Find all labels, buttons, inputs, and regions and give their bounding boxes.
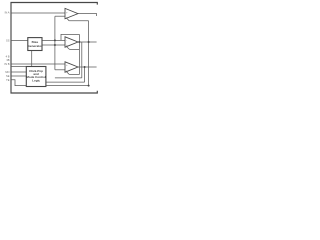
wire INB pin line A to op-amp U3 +input (11, 63, 65, 65)
wire U1 feedback horizontal (69, 20, 88, 22)
wire SS pin to bias generator (11, 39, 28, 41)
IC outline border (11, 3, 97, 94)
bias generator box B1 (28, 38, 42, 51)
wire vertical x79.4 (78, 34, 80, 74)
svg-text:TE: TE (6, 78, 10, 82)
junction node U2 out x79.4 (78, 41, 80, 43)
junction node U3 out x84.6 (84, 66, 86, 68)
wire U3 output to OUTC pin (78, 66, 97, 68)
svg-text:4 B: 4 B (6, 55, 10, 59)
op-amp U3 (65, 62, 78, 72)
wire bias W1 to U2 top input (42, 39, 65, 41)
wire vertical x81.8 (81, 42, 83, 78)
wire U3 -input from bus corner (55, 69, 65, 71)
wire U1 feedback vertical down right side (88, 21, 90, 86)
wire U2 feedback diagonal (67, 47, 70, 50)
svg-text:3B: 3B (6, 58, 9, 62)
wire vertical bus x55 (54, 16, 56, 70)
wire U1 feedback diagonal (66, 18, 69, 21)
svg-text:SS: SS (6, 39, 10, 43)
svg-text:IN A: IN A (5, 10, 10, 14)
junction node U2 out x88.6 (88, 41, 90, 43)
wire U1 -input stub to node bus (55, 15, 65, 17)
junction node bottom x88.6 (88, 85, 90, 87)
op-amp U1 (65, 8, 78, 18)
svg-text:SE: SE (6, 74, 10, 78)
wire pin to mode logic top (11, 66, 26, 68)
junction node bus/W1 (54, 39, 56, 41)
wire U3 feedback diagonal (67, 72, 70, 75)
wire pin to mode logic row3 (11, 75, 26, 77)
svg-text:IN B: IN B (4, 62, 9, 66)
wire bias output to U2 +input (42, 44, 65, 46)
wire mode logic to x88.6 (46, 85, 89, 87)
svg-text:Logic: Logic (32, 78, 40, 82)
wire U2 output to OUTB pin (78, 41, 97, 43)
svg-text:MO: MO (5, 70, 9, 74)
wire mode logic to x84.6 (46, 81, 85, 83)
op-amp U2 (65, 37, 78, 47)
mode control logic box B2 (26, 67, 46, 87)
wire SD pin jog (11, 80, 26, 86)
wire vertical x84.6 (84, 67, 86, 82)
wire U2 lower feedback horizontal (70, 48, 80, 50)
wire INA pin to op-amp U1 +input (11, 12, 65, 14)
wire pin to mode logic row2 (11, 71, 26, 73)
junction node bus/W2 (54, 44, 56, 46)
wire U1 output to OUTA pin (78, 14, 97, 16)
wire bias generator bottom stub (31, 50, 33, 66)
wire horizontal y77.9 (55, 77, 82, 79)
wire U3 feedback horizontal (69, 74, 79, 76)
wire U2 top loop (61, 34, 79, 40)
svg-text:Generator: Generator (28, 44, 44, 48)
